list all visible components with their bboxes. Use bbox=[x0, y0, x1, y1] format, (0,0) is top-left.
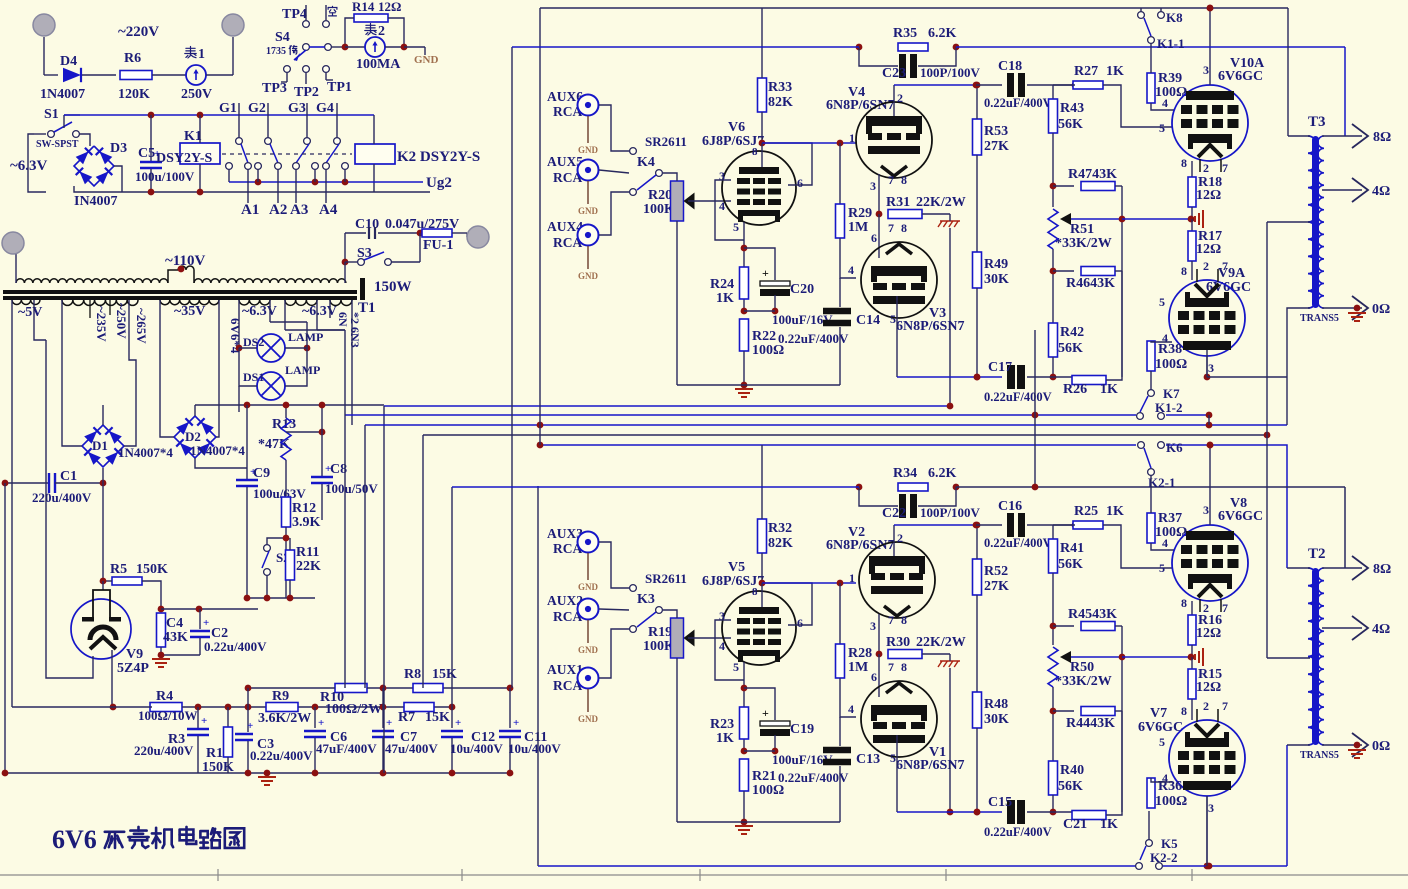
transformer T2 core bbox=[1312, 568, 1319, 745]
svg-text:A2: A2 bbox=[269, 202, 287, 218]
svg-text:R19: R19 bbox=[648, 625, 672, 640]
resistor R49 30K bbox=[973, 252, 982, 288]
T1 winding 6.3V B bbox=[285, 300, 317, 305]
svg-text:100P/100V: 100P/100V bbox=[920, 65, 981, 80]
capacitor C1 bbox=[5, 482, 49, 484]
svg-text:R20: R20 bbox=[648, 188, 672, 203]
resistor R46 43K bbox=[1081, 267, 1115, 276]
wire bbox=[599, 105, 629, 151]
svg-text:SR2611: SR2611 bbox=[645, 134, 687, 149]
svg-text:K5: K5 bbox=[1161, 836, 1178, 851]
ground bbox=[735, 825, 753, 827]
svg-text:LAMP: LAMP bbox=[285, 363, 320, 377]
svg-text:56K: 56K bbox=[1058, 117, 1083, 132]
svg-text:5: 5 bbox=[1159, 295, 1165, 309]
svg-text:0.22uF/400V: 0.22uF/400V bbox=[778, 331, 849, 346]
wire bbox=[160, 430, 174, 437]
svg-text:1N4007*4: 1N4007*4 bbox=[118, 445, 173, 460]
fuse FU-1 bbox=[422, 229, 452, 237]
svg-text:R31: R31 bbox=[886, 195, 910, 210]
svg-text:3.9K: 3.9K bbox=[292, 515, 321, 530]
svg-text:150W: 150W bbox=[374, 279, 412, 295]
svg-text:R12: R12 bbox=[292, 501, 316, 516]
svg-text:R14: R14 bbox=[352, 0, 375, 14]
svg-text:56K: 56K bbox=[1058, 341, 1083, 356]
svg-text:A1: A1 bbox=[241, 202, 259, 218]
svg-text:R51: R51 bbox=[1070, 222, 1094, 237]
svg-text:R29: R29 bbox=[848, 206, 872, 221]
wire wiper bbox=[1060, 213, 1071, 225]
svg-text:C4: C4 bbox=[166, 616, 183, 631]
wire bbox=[62, 440, 82, 446]
resistor R6 bbox=[120, 71, 152, 80]
svg-text:G3: G3 bbox=[288, 101, 306, 116]
resistor C21 1K bbox=[1072, 811, 1106, 820]
svg-text:5: 5 bbox=[1159, 561, 1165, 575]
wire plate t2 bbox=[896, 296, 898, 377]
svg-text:C22: C22 bbox=[882, 506, 906, 521]
svg-text:K6: K6 bbox=[1166, 440, 1183, 455]
svg-text:56K: 56K bbox=[1058, 779, 1083, 794]
wire NFB2 bbox=[452, 486, 859, 488]
wire node 405 bbox=[195, 404, 384, 406]
transformer T3 primary bbox=[1308, 136, 1317, 308]
svg-text:3: 3 bbox=[1208, 801, 1214, 815]
capacitor C15 0.22uF/400V bbox=[897, 811, 1002, 813]
svg-text:R27: R27 bbox=[1074, 64, 1098, 79]
wire wiper bbox=[1060, 651, 1071, 663]
svg-text:6N8P/6SN7: 6N8P/6SN7 bbox=[826, 98, 894, 113]
resistor R8 bbox=[413, 684, 443, 693]
svg-text:1K: 1K bbox=[1100, 817, 1118, 832]
transformer T1 primary bbox=[16, 279, 168, 283]
wire plate o1 bbox=[1209, 445, 1211, 525]
resistor R18 12ohm bbox=[1191, 161, 1193, 193]
svg-text:4: 4 bbox=[719, 639, 725, 653]
svg-text:C13: C13 bbox=[856, 752, 880, 767]
svg-text:6: 6 bbox=[797, 176, 803, 190]
svg-text:3: 3 bbox=[1208, 361, 1214, 375]
svg-text:R38: R38 bbox=[1158, 342, 1182, 357]
svg-text:R41: R41 bbox=[1060, 541, 1084, 556]
svg-text:G1: G1 bbox=[219, 101, 237, 116]
svg-text:R23: R23 bbox=[710, 717, 734, 732]
arrow 4ohm bbox=[1352, 616, 1368, 640]
svg-text:100Ω/2W: 100Ω/2W bbox=[325, 702, 382, 717]
capacitor R3 220u bbox=[195, 704, 202, 711]
svg-text:7: 7 bbox=[888, 221, 894, 235]
svg-text:R42: R42 bbox=[1060, 325, 1084, 340]
svg-text:K2 DSY2Y-S: K2 DSY2Y-S bbox=[397, 149, 480, 165]
svg-text:1K: 1K bbox=[1106, 504, 1124, 519]
svg-text:2: 2 bbox=[1203, 259, 1209, 273]
wire bbox=[878, 654, 880, 697]
svg-text:+: + bbox=[203, 617, 209, 629]
svg-text:100Ω: 100Ω bbox=[1155, 794, 1187, 809]
resistor R53 27K bbox=[973, 119, 982, 155]
ground bbox=[1354, 305, 1361, 312]
wire bus4 bbox=[423, 434, 1267, 436]
svg-text:5: 5 bbox=[733, 660, 739, 674]
resistor R38 100ohm bbox=[1147, 341, 1155, 371]
bridge rectifier D2 bbox=[174, 416, 216, 458]
wire bbox=[247, 688, 249, 707]
terminal J4 bbox=[2, 232, 24, 254]
svg-text:~250V: ~250V bbox=[114, 303, 129, 339]
wire T3 center tap bbox=[1267, 221, 1310, 223]
svg-text:5: 5 bbox=[733, 220, 739, 234]
svg-text:0Ω: 0Ω bbox=[1372, 302, 1390, 317]
svg-text:4: 4 bbox=[848, 263, 854, 277]
relay coil K2 bbox=[355, 144, 395, 164]
svg-text:12Ω: 12Ω bbox=[378, 0, 401, 14]
svg-text:27K: 27K bbox=[984, 139, 1009, 154]
svg-text:S4: S4 bbox=[275, 30, 290, 45]
svg-text:R4: R4 bbox=[156, 689, 173, 704]
svg-text:1K: 1K bbox=[1100, 382, 1118, 397]
svg-text:R24: R24 bbox=[710, 277, 734, 292]
switch contacts bbox=[284, 66, 291, 73]
svg-text:K1: K1 bbox=[184, 129, 202, 144]
svg-text:+: + bbox=[201, 715, 207, 727]
svg-text:1M: 1M bbox=[848, 220, 868, 235]
arrow 0ohm bbox=[1352, 296, 1368, 320]
capacitor C22 100P/100V bbox=[859, 487, 898, 506]
svg-text:*33K/2W: *33K/2W bbox=[1055, 674, 1112, 689]
meter PA1 250V bbox=[186, 65, 206, 85]
wire bbox=[345, 18, 354, 47]
transformer T2 primary bbox=[1308, 568, 1317, 745]
capacitor C20 100uF/16V bbox=[744, 248, 775, 280]
svg-text:R36: R36 bbox=[1158, 779, 1182, 794]
resistor R48 30K bbox=[973, 692, 982, 728]
svg-text:100u/63V: 100u/63V bbox=[253, 486, 306, 501]
bridge rectifier D1 bbox=[82, 425, 124, 467]
svg-text:0.22u/400V: 0.22u/400V bbox=[204, 639, 267, 654]
ground bbox=[735, 388, 753, 390]
svg-text:6: 6 bbox=[871, 670, 877, 684]
wire line2 bbox=[894, 84, 976, 86]
resistor R43 56K bbox=[1053, 84, 1075, 86]
resistor R37 100ohm bbox=[1147, 513, 1155, 543]
svg-text:6N: 6N bbox=[336, 312, 350, 327]
wire bus1 bbox=[384, 405, 950, 407]
svg-text:82K: 82K bbox=[768, 536, 793, 551]
svg-text:8: 8 bbox=[1181, 156, 1187, 170]
wire bbox=[43, 37, 45, 75]
svg-text:2: 2 bbox=[897, 91, 903, 105]
svg-text:~110V: ~110V bbox=[165, 253, 205, 269]
wire coupling bbox=[762, 142, 856, 144]
svg-text:SR2611: SR2611 bbox=[645, 571, 687, 586]
svg-text:150K: 150K bbox=[136, 562, 168, 577]
svg-text:TP3: TP3 bbox=[262, 81, 287, 96]
test point empty bbox=[325, 5, 327, 20]
resistor R7 bbox=[404, 703, 434, 712]
svg-text:3: 3 bbox=[719, 609, 725, 623]
svg-text:C23: C23 bbox=[882, 66, 906, 81]
wire bbox=[331, 46, 345, 48]
svg-text:22K/2W: 22K/2W bbox=[916, 195, 966, 210]
svg-text:K2-2: K2-2 bbox=[1150, 850, 1177, 865]
wire 4ohm tap bbox=[1322, 627, 1362, 629]
svg-text:R35: R35 bbox=[893, 26, 917, 41]
svg-text:5Z4P: 5Z4P bbox=[117, 661, 149, 676]
wire bbox=[599, 542, 629, 588]
wire bbox=[28, 134, 46, 192]
svg-text:R8: R8 bbox=[404, 667, 421, 682]
wire bbox=[247, 597, 315, 599]
svg-text:R4643K: R4643K bbox=[1066, 276, 1115, 291]
capacitor C19 100uF/16V bbox=[744, 688, 775, 720]
wire A3 bbox=[295, 169, 297, 203]
svg-text:7: 7 bbox=[888, 613, 894, 627]
svg-text:K8: K8 bbox=[1166, 10, 1183, 25]
svg-text:C15: C15 bbox=[988, 795, 1012, 810]
resistor R32 82K bbox=[758, 519, 767, 553]
wire T2 primary top bbox=[1287, 567, 1310, 569]
lamp DS1 bbox=[257, 372, 285, 400]
wire line2 bbox=[894, 524, 976, 526]
svg-text:7: 7 bbox=[1222, 259, 1228, 273]
svg-text:6V6: 6V6 bbox=[52, 825, 97, 854]
svg-text:6: 6 bbox=[871, 231, 877, 245]
svg-text:2: 2 bbox=[897, 531, 903, 545]
svg-text:6V6GC: 6V6GC bbox=[1218, 69, 1263, 84]
svg-text:+: + bbox=[762, 266, 769, 280]
capacitor C8 bbox=[321, 405, 323, 476]
svg-text:7: 7 bbox=[1222, 161, 1228, 175]
capacitor C9 bbox=[246, 405, 248, 479]
svg-text:6N8P/6SN7: 6N8P/6SN7 bbox=[826, 538, 894, 553]
svg-text:2: 2 bbox=[1203, 699, 1209, 713]
svg-text:100MA: 100MA bbox=[356, 57, 401, 72]
resistor R4 bbox=[150, 703, 182, 712]
wire plate o2 bbox=[1206, 796, 1208, 866]
diode D4 bbox=[63, 68, 81, 82]
svg-text:22K: 22K bbox=[296, 559, 321, 574]
T1 winding 6.3V A bbox=[239, 300, 270, 305]
T1 winding 6N3 bbox=[330, 300, 352, 306]
svg-text:LAMP: LAMP bbox=[288, 330, 323, 344]
meter PA2 100MA bbox=[365, 37, 385, 57]
wire V9A plate bbox=[1206, 350, 1208, 377]
wire to grid pin5 bbox=[1103, 525, 1172, 568]
svg-text:K4: K4 bbox=[637, 155, 655, 170]
svg-text:27K: 27K bbox=[984, 579, 1009, 594]
wire A4 bbox=[325, 169, 327, 203]
svg-text:TP1: TP1 bbox=[327, 80, 352, 95]
wire plate bbox=[893, 85, 895, 116]
svg-text:100Ω: 100Ω bbox=[752, 783, 784, 798]
capacitor C18 0.22uF/400V bbox=[1007, 73, 1014, 97]
svg-text:4: 4 bbox=[1162, 96, 1168, 110]
svg-text:DSY2Y-S: DSY2Y-S bbox=[156, 151, 212, 166]
resistor R52 27K bbox=[973, 559, 982, 595]
svg-text:R53: R53 bbox=[984, 124, 1008, 139]
switch K5 bbox=[1146, 840, 1153, 847]
svg-text:C18: C18 bbox=[998, 59, 1022, 74]
transformer T2 secondary bbox=[1318, 568, 1324, 745]
svg-text:~5V: ~5V bbox=[18, 305, 42, 320]
svg-text:1: 1 bbox=[849, 571, 855, 585]
wire cathode V9 bbox=[111, 650, 113, 707]
wire 4ohm tap bbox=[1322, 189, 1362, 191]
relay coil K1 bbox=[180, 143, 220, 164]
svg-text:R22: R22 bbox=[752, 329, 776, 344]
resistor R36 100ohm bbox=[1147, 778, 1155, 808]
capacitor C7 bbox=[382, 707, 384, 728]
wire R34 feed bbox=[1034, 330, 1036, 487]
svg-text:~235V: ~235V bbox=[94, 306, 109, 342]
svg-text:3: 3 bbox=[870, 179, 876, 193]
wire cathode bbox=[743, 222, 745, 311]
svg-text:R37: R37 bbox=[1158, 511, 1182, 526]
svg-text:3: 3 bbox=[719, 169, 725, 183]
svg-text:12Ω: 12Ω bbox=[1196, 626, 1221, 641]
svg-text:3: 3 bbox=[1203, 63, 1209, 77]
svg-text:D1: D1 bbox=[92, 438, 108, 453]
resistor R12 bbox=[285, 460, 287, 496]
resistor R21 100ohm bbox=[740, 759, 749, 791]
ground bbox=[1195, 210, 1203, 228]
wire bus2b bbox=[1166, 414, 1209, 416]
svg-text:+: + bbox=[386, 717, 392, 729]
transformer T3 core bbox=[1312, 136, 1319, 308]
switch K1-1 bbox=[1148, 37, 1155, 44]
svg-text:S1: S1 bbox=[44, 107, 59, 122]
svg-text:120K: 120K bbox=[118, 87, 150, 102]
svg-text:R52: R52 bbox=[984, 564, 1008, 579]
wire bbox=[63, 115, 65, 128]
svg-text:V7: V7 bbox=[1150, 706, 1167, 721]
svg-text:4Ω: 4Ω bbox=[1372, 622, 1390, 637]
svg-text:R40: R40 bbox=[1060, 763, 1084, 778]
svg-text:82K: 82K bbox=[768, 95, 793, 110]
svg-text:GND: GND bbox=[578, 582, 599, 592]
svg-text:100u/50V: 100u/50V bbox=[325, 481, 378, 496]
svg-text:5: 5 bbox=[890, 751, 896, 765]
svg-text:1K: 1K bbox=[1106, 64, 1124, 79]
capacitor C12 bbox=[451, 707, 453, 728]
T1 winding 35V bbox=[160, 300, 219, 305]
svg-text:~6.3V: ~6.3V bbox=[242, 304, 277, 319]
svg-text:56K: 56K bbox=[1058, 557, 1083, 572]
svg-text:G2: G2 bbox=[248, 101, 266, 116]
svg-text:D3: D3 bbox=[110, 141, 127, 156]
switch K7 bbox=[1148, 390, 1155, 397]
svg-text:4Ω: 4Ω bbox=[1372, 184, 1390, 199]
svg-text:30K: 30K bbox=[984, 712, 1009, 727]
resistor R39 100ohm bbox=[1147, 73, 1155, 103]
ground hatch bbox=[940, 220, 960, 222]
switch K2-1 bbox=[1148, 469, 1155, 476]
svg-text:1N4007: 1N4007 bbox=[40, 87, 85, 102]
rectifier tube V9 5Z4P bbox=[71, 599, 131, 659]
svg-text:IN4007: IN4007 bbox=[74, 194, 118, 209]
svg-text:43K: 43K bbox=[163, 630, 188, 645]
wire ch2 top link bbox=[451, 487, 453, 707]
svg-text:6N8P/6SN7: 6N8P/6SN7 bbox=[896, 758, 964, 773]
svg-text:1N4007*4: 1N4007*4 bbox=[190, 443, 245, 458]
svg-text:+: + bbox=[762, 706, 769, 720]
resistor R40 56K bbox=[1049, 761, 1058, 795]
svg-text:47u/400V: 47u/400V bbox=[385, 741, 438, 756]
svg-text:7: 7 bbox=[1222, 601, 1228, 615]
svg-text:1M: 1M bbox=[848, 660, 868, 675]
svg-text:12Ω: 12Ω bbox=[1196, 188, 1221, 203]
svg-text:TP2: TP2 bbox=[294, 85, 319, 100]
svg-text:R4543K: R4543K bbox=[1068, 607, 1117, 622]
svg-text:A4: A4 bbox=[319, 202, 338, 218]
svg-text:15K: 15K bbox=[425, 710, 450, 725]
svg-text:8: 8 bbox=[1181, 596, 1187, 610]
wire bus3 bbox=[365, 424, 1287, 426]
resistor R11 bbox=[286, 550, 295, 580]
svg-text:0.22uF/400V: 0.22uF/400V bbox=[984, 96, 1052, 110]
svg-text:10u/400V: 10u/400V bbox=[450, 741, 503, 756]
resistor R47 43K bbox=[1081, 182, 1115, 191]
svg-text:R4443K: R4443K bbox=[1066, 716, 1115, 731]
svg-text:GND: GND bbox=[578, 206, 599, 216]
wire plate o2 bbox=[1206, 356, 1208, 377]
resistor R5 bbox=[112, 577, 142, 585]
arrow 4ohm bbox=[1352, 178, 1368, 202]
svg-text:R11: R11 bbox=[296, 545, 319, 560]
ground hatch bbox=[940, 660, 960, 662]
svg-text:TRANS5: TRANS5 bbox=[1300, 313, 1339, 324]
svg-text:R26: R26 bbox=[1063, 382, 1087, 397]
svg-text:~6.3V: ~6.3V bbox=[10, 158, 48, 174]
svg-text:100Ω: 100Ω bbox=[1155, 357, 1187, 372]
wire bbox=[15, 254, 17, 283]
svg-text:8: 8 bbox=[1181, 704, 1187, 718]
svg-text:~220V: ~220V bbox=[118, 24, 159, 40]
svg-text:6: 6 bbox=[797, 616, 803, 630]
table line bbox=[0, 874, 1408, 876]
svg-text:+: + bbox=[318, 717, 324, 729]
capacitor C5 bbox=[150, 115, 152, 161]
resistor R44 43K bbox=[1081, 707, 1115, 716]
svg-text:8: 8 bbox=[752, 146, 758, 158]
svg-text:6N8P/6SN7: 6N8P/6SN7 bbox=[896, 319, 964, 334]
resistor R1 150K bbox=[225, 704, 232, 711]
svg-text:4: 4 bbox=[1162, 536, 1168, 550]
resistor R15 12ohm bbox=[1191, 657, 1193, 669]
svg-text:100Ω/10W: 100Ω/10W bbox=[138, 708, 198, 723]
svg-text:R34: R34 bbox=[893, 466, 917, 481]
ground bbox=[1354, 742, 1361, 749]
svg-text:8Ω: 8Ω bbox=[1373, 130, 1391, 145]
svg-text:2: 2 bbox=[378, 24, 385, 39]
wire aux verticals bbox=[344, 330, 346, 688]
svg-text:*33K/2W: *33K/2W bbox=[1055, 236, 1112, 251]
svg-text:1K: 1K bbox=[716, 731, 734, 746]
arrow 8ohm bbox=[1352, 124, 1368, 148]
capacitor C16 0.22uF/400V bbox=[1007, 513, 1014, 537]
T1 winding 5V bbox=[12, 300, 40, 304]
svg-text:15K: 15K bbox=[432, 667, 457, 682]
svg-text:V5: V5 bbox=[728, 560, 745, 575]
svg-text:5: 5 bbox=[1159, 121, 1165, 135]
wire heater bbox=[46, 340, 93, 678]
svg-text:12Ω: 12Ω bbox=[1196, 680, 1221, 695]
svg-text:R25: R25 bbox=[1074, 504, 1098, 519]
svg-text:R50: R50 bbox=[1070, 660, 1094, 675]
svg-text:FU-1: FU-1 bbox=[423, 238, 453, 253]
svg-text:6.2K: 6.2K bbox=[928, 466, 957, 481]
svg-text:+: + bbox=[513, 717, 519, 729]
